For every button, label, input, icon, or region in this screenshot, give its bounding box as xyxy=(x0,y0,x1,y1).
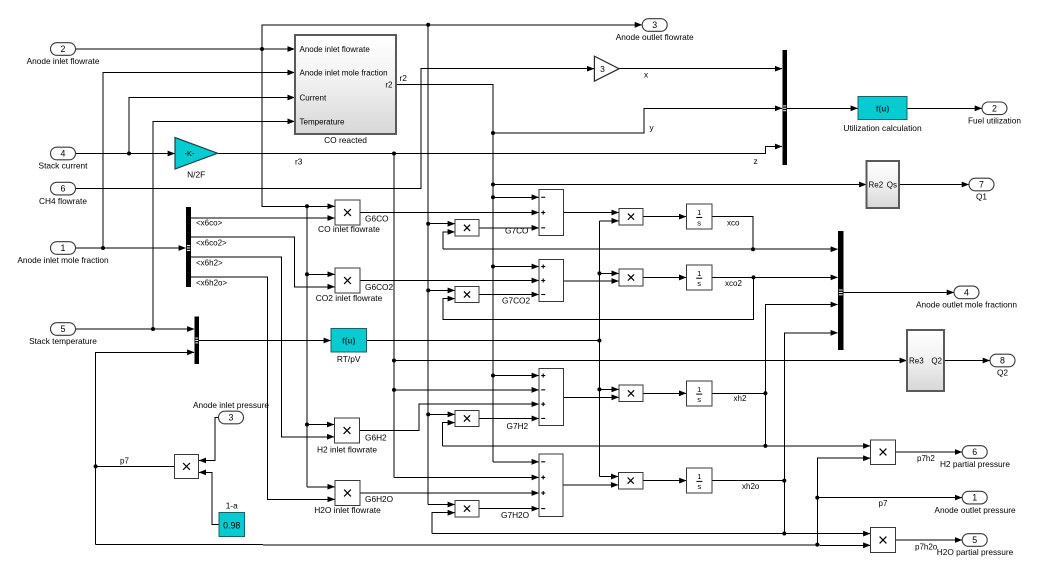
sum CO2 (+,+,-) xyxy=(539,260,564,302)
wire: r2 branch to Re2 Qs xyxy=(493,184,866,186)
svg-text:G6H2O: G6H2O xyxy=(365,494,394,504)
wire: G7CO multiply out to CO sum in3 xyxy=(479,227,539,229)
svg-text:p7h2o: p7h2o xyxy=(915,543,938,552)
wire: H2 sum out to product in2 xyxy=(564,396,619,398)
svg-text:8: 8 xyxy=(1000,356,1005,366)
wire: xh2o feedback left to G7H2O in2 xyxy=(432,513,455,534)
svg-text:Q2: Q2 xyxy=(997,368,1008,378)
svg-text:H2 inlet flowrate: H2 inlet flowrate xyxy=(317,445,377,455)
svg-text:6: 6 xyxy=(61,184,66,194)
svg-text:s: s xyxy=(698,482,702,491)
block f(u) RT/pV xyxy=(331,329,367,353)
output port 1 Anode outlet pressure xyxy=(962,491,987,504)
wire: xh2 riser up to outlet mux in3 xyxy=(765,305,837,446)
wire: xco feedback left to G7CO in2 and right to outlet mux in1 xyxy=(443,232,455,249)
wire: p7h2o multiply out to port 5 xyxy=(896,539,962,541)
svg-text:p7: p7 xyxy=(120,457,129,466)
wire: outlet flowrate chain x428 to G7 multiplies in1 xyxy=(427,25,429,505)
svg-text:5: 5 xyxy=(972,535,977,545)
svg-text:Anode inlet mole fraction: Anode inlet mole fraction xyxy=(17,255,109,265)
wire: r3 end to H2O sum in2 xyxy=(394,476,539,478)
subsystem CO reacted xyxy=(295,35,396,134)
multiply G6H2O - H2O inlet flowrate xyxy=(335,481,360,506)
block f(u) Utilization calculation xyxy=(858,97,907,120)
wire: xh2 integrator out to riser x765 xyxy=(712,392,765,394)
output port 6 H2 partial pressure xyxy=(962,446,987,459)
mux x,y,z xyxy=(782,50,787,165)
integrator 1/s xco2 xyxy=(687,265,713,290)
wire: outlet mole fraction mux out to port 4 xyxy=(844,291,954,293)
svg-text:Qs: Qs xyxy=(887,181,897,190)
wire: G6H2O to H2O sum in3 xyxy=(360,492,539,494)
wire: 0.98 constant into p7 multiply in2 (right side) xyxy=(199,472,219,524)
svg-text:Utilization calculation: Utilization calculation xyxy=(843,123,922,133)
svg-text:3: 3 xyxy=(652,20,657,30)
gain 3 xyxy=(594,56,619,81)
svg-text:1: 1 xyxy=(697,208,701,217)
wire: CO2 product to integrator xyxy=(643,276,686,278)
wire: r2 from CO reacted down distribution xyxy=(396,85,493,462)
output port 3 Anode outlet flowrate xyxy=(642,19,667,32)
svg-text:1: 1 xyxy=(972,493,977,503)
wire: Anode inlet flowrate port 2 to CO reacted in1 xyxy=(76,48,295,50)
svg-text:Temperature: Temperature xyxy=(300,117,345,126)
input port 6 CH4 flowrate xyxy=(51,182,76,195)
wire: p7 multiply output to left vertical xyxy=(96,465,175,467)
svg-text:H2 partial pressure: H2 partial pressure xyxy=(940,459,1010,469)
wire: G6H2 up and to H2 sum in3 xyxy=(360,404,539,430)
integrator 1/s xh2 xyxy=(687,381,713,406)
svg-text:CH4 flowrate: CH4 flowrate xyxy=(39,196,87,206)
wire: branch down from inlet flowrate to species inlet-flow multiplies xyxy=(262,49,335,206)
wire: temperature mux out to RT/pV f(u) xyxy=(199,340,331,342)
svg-text:xco: xco xyxy=(727,219,740,228)
multiply G7H2 xyxy=(455,410,479,426)
svg-text:4: 4 xyxy=(61,149,66,159)
svg-text:Stack temperature: Stack temperature xyxy=(29,336,97,346)
multiply G7CO xyxy=(455,220,479,236)
wire: H2 product to integrator xyxy=(643,392,686,394)
svg-text:z: z xyxy=(754,156,758,166)
svg-text:G7CO: G7CO xyxy=(505,226,529,236)
wire: branch up from stack temperature to CO reacted in4 xyxy=(153,121,295,329)
input port 3 Anode inlet pressure xyxy=(219,411,244,424)
svg-text:Q1: Q1 xyxy=(976,192,987,202)
wire: G6CO2 to CO2 sum in2 xyxy=(360,280,539,282)
output port 5 H2O partial pressure xyxy=(962,534,987,547)
svg-text:xh2: xh2 xyxy=(734,394,747,403)
wire: bus selector out3 <x6h2> to H2 inlet multiply in2 xyxy=(191,257,334,437)
wire: branch up from stack current to CO reacted in3 xyxy=(129,98,295,154)
svg-text:2: 2 xyxy=(61,44,66,54)
multiply G7CO2 xyxy=(455,286,479,302)
wire: gain 3 output x to xyz mux in1 xyxy=(619,68,782,70)
wire: r2 branch to CO sum in1 xyxy=(493,196,539,198)
multiply G6CO2 - CO2 inlet flowrate xyxy=(335,268,360,293)
svg-text:H2O partial pressure: H2O partial pressure xyxy=(937,547,1014,557)
svg-text:s: s xyxy=(697,218,701,227)
svg-text:p7: p7 xyxy=(879,499,888,508)
svg-text:Re2: Re2 xyxy=(869,181,884,190)
output port 8 Q2 xyxy=(990,354,1015,367)
input port 4 Stack current xyxy=(51,147,76,160)
svg-text:6: 6 xyxy=(972,447,977,457)
svg-text:H2O inlet flowrate: H2O inlet flowrate xyxy=(314,505,381,515)
wire: RT/pV f(u) output to distribution vertical xyxy=(367,340,600,342)
wire: G7H2 multiply out to H2 sum in4 xyxy=(479,417,539,419)
wire: r2 branch to CO2 sum in1 xyxy=(493,266,539,268)
svg-text:r2: r2 xyxy=(400,73,408,83)
svg-text:s: s xyxy=(697,279,701,288)
wire: Utilization calculation out to Fuel utilization port 2 xyxy=(907,107,982,109)
wire: G6CO to CO sum in2 xyxy=(360,212,539,214)
svg-text:3: 3 xyxy=(229,413,234,423)
sum CO (-,+,-) xyxy=(539,190,564,236)
constant 0.98 (1-a) xyxy=(219,513,245,537)
product H2O rate xyxy=(619,472,644,489)
wire: Stack current port 4 to N/2F gain xyxy=(76,153,175,155)
svg-text:Anode inlet flowrate: Anode inlet flowrate xyxy=(27,56,100,66)
integrator 1/s xco xyxy=(687,204,713,229)
svg-text:CO2 inlet flowrate: CO2 inlet flowrate xyxy=(316,293,383,303)
svg-text:Anode inlet mole fraction: Anode inlet mole fraction xyxy=(300,69,388,78)
svg-text:G6H2: G6H2 xyxy=(365,433,387,443)
svg-text:Anode outlet flowrate: Anode outlet flowrate xyxy=(616,32,694,42)
wire: p7h2 multiply out to port 6 xyxy=(896,451,962,453)
wire: r3 from N/2F gain, z to xyz mux in3 xyxy=(218,147,782,154)
svg-text:1: 1 xyxy=(61,243,66,253)
svg-text:s: s xyxy=(697,395,701,404)
wire: p7 branch to Anode outlet pressure port 1 xyxy=(817,497,962,499)
svg-text:r3: r3 xyxy=(295,157,303,167)
multiply p7 (mirrored) xyxy=(175,455,199,479)
svg-text:1: 1 xyxy=(697,472,701,481)
wire: Stack temperature port 5 to temperature mux in1 xyxy=(76,328,195,330)
svg-text:Q2: Q2 xyxy=(931,357,942,366)
wire: p7 vertical x95 up to temperature mux in2 xyxy=(96,352,195,544)
svg-text:f(u): f(u) xyxy=(876,103,890,113)
svg-text:<x6h2>: <x6h2> xyxy=(196,258,223,267)
output port 2 Fuel utilization xyxy=(982,102,1007,115)
multiply p7h2o xyxy=(871,528,896,553)
wire: p7 riser x817 up to p7h2 multiply in2 xyxy=(817,458,870,544)
mux outlet mole fractions xyxy=(838,231,844,350)
wire: xh2 feedback right to p7h2 multiply in1 xyxy=(443,445,870,447)
bus selector for anode inlet mole fraction xyxy=(186,207,191,287)
output port 7 Q1 xyxy=(969,178,994,191)
wire: G7H2O multiply out to H2O sum in4 xyxy=(479,508,539,510)
sum H2O (-,+,+,-) xyxy=(539,454,563,516)
multiply G7H2O xyxy=(455,500,479,516)
wire: Anode inlet pressure port 3 down into p7 multiply in1 (right side) xyxy=(199,418,218,461)
svg-text:5: 5 xyxy=(61,324,66,334)
wire: H2O sum out to product in2 xyxy=(563,484,618,486)
svg-text:xh2o: xh2o xyxy=(742,482,760,491)
wire: r3 branch to H2 sum in2 xyxy=(394,389,539,391)
svg-text:2: 2 xyxy=(992,103,997,113)
wire: RT/pV distribution vertical x599 to products xyxy=(598,221,600,477)
svg-text:xco2: xco2 xyxy=(725,279,742,288)
product CO rate xyxy=(619,208,643,225)
svg-text:G7CO2: G7CO2 xyxy=(502,296,531,306)
svg-text:p7h2: p7h2 xyxy=(917,454,935,463)
multiply G6H2 - H2 inlet flowrate xyxy=(335,418,360,443)
wire: r2 end to H2O sum in1 xyxy=(493,461,539,463)
wire: xco integrator out, down and feedback/mux xyxy=(712,217,753,250)
wire: xco2 integrator out to outlet mux in2 xyxy=(712,276,838,278)
svg-text:G7H2O: G7H2O xyxy=(501,510,530,520)
svg-text:4: 4 xyxy=(964,288,969,298)
wire: bus selector out2 <x6co2> to CO2 inlet multiply in2 xyxy=(191,237,335,287)
wire: r2 branch to H2 sum in1 xyxy=(493,375,539,377)
svg-text:G6CO: G6CO xyxy=(365,214,389,224)
input port 1 Anode inlet mole fraction xyxy=(51,242,76,255)
svg-text:Anode inlet flowrate: Anode inlet flowrate xyxy=(300,45,371,54)
svg-text:0.98: 0.98 xyxy=(223,521,240,531)
wire: xyz mux out to Utilization calculation xyxy=(787,107,858,109)
wire: G7CO2 multiply out to CO2 sum in3 xyxy=(479,294,539,296)
sum H2 (+,-,+,-) xyxy=(539,368,564,425)
mux temperature+pressure for RT/pV xyxy=(195,317,200,365)
block Re3 Q2 xyxy=(907,330,944,391)
svg-text:<x6h2o>: <x6h2o> xyxy=(196,279,227,288)
wire: xh2o riser up to outlet mux in4 xyxy=(784,333,837,534)
svg-text:Current: Current xyxy=(300,93,327,102)
junction dots xyxy=(260,47,264,51)
wire: Re3 Q2 out to Q2 port 8 xyxy=(944,360,990,362)
wire: flowrate vertical chain x307 to CO2/H2/H2O inlet multiplies xyxy=(306,206,308,487)
svg-text:r2: r2 xyxy=(385,80,393,89)
wire: Anode inlet mole fraction port 1 to bus selector xyxy=(76,247,186,249)
wire: H2O product to integrator xyxy=(643,480,686,482)
svg-text:<x6co>: <x6co> xyxy=(196,219,223,228)
wire: p7 bottom run to p7h2o multiply in2 xyxy=(96,544,871,547)
svg-text:N/2F: N/2F xyxy=(187,170,205,180)
svg-text:1: 1 xyxy=(697,385,701,394)
gain N/2F xyxy=(175,138,218,170)
svg-text:1-a: 1-a xyxy=(226,501,238,511)
wire: xh2o feedback right to p7h2o multiply in1 xyxy=(432,533,870,535)
wire: xco2 feedback down-left to G7CO2 in2 xyxy=(443,277,754,319)
wire: bus selector out1 <x6co> to CO inlet multiply in2 xyxy=(191,217,335,219)
svg-text:Anode outlet pressure: Anode outlet pressure xyxy=(934,505,1016,515)
svg-text:3: 3 xyxy=(600,64,605,74)
svg-text:G6CO2: G6CO2 xyxy=(365,282,394,292)
svg-text:Anode outlet mole fractionn: Anode outlet mole fractionn xyxy=(916,300,1017,310)
svg-text:CO inlet flowrate: CO inlet flowrate xyxy=(318,224,380,234)
wire: r3 vertical distribution x394 xyxy=(393,154,395,478)
block Re2 Qs xyxy=(867,161,900,208)
svg-text:Re3: Re3 xyxy=(909,357,924,366)
wire: CO sum out to product in1 xyxy=(564,212,619,214)
multiply G6CO - CO inlet flowrate xyxy=(335,200,360,225)
svg-text:f(u): f(u) xyxy=(342,336,356,346)
svg-text:-K-: -K- xyxy=(185,149,195,158)
multiply p7h2 xyxy=(871,440,896,465)
wire: branch up from mole fraction to CO reacted in2 xyxy=(103,73,295,249)
wire: branch up from inlet flowrate to Anode outlet flowrate port 3 xyxy=(262,25,642,49)
wire: bus selector out4 <x6h2o> to H2O inlet multiply in2 xyxy=(191,277,335,499)
svg-text:1: 1 xyxy=(697,269,701,278)
svg-text:7: 7 xyxy=(979,180,984,190)
wire: Re2 Qs out to Q1 port 7 xyxy=(899,184,969,186)
wire: CH4 flowrate port 6 up to gain 3 xyxy=(76,69,594,189)
input port 5 Stack temperature xyxy=(51,323,76,336)
product CO2 rate xyxy=(619,269,643,286)
product H2 rate xyxy=(619,385,643,402)
output port 4 Anode outlet mole fractionn xyxy=(954,286,979,299)
input port 2 Anode inlet flowrate xyxy=(51,43,76,56)
svg-text:Stack current: Stack current xyxy=(39,161,89,171)
wire: xh2o integrator out to riser x784 xyxy=(712,480,784,482)
svg-text:<x6co2>: <x6co2> xyxy=(196,239,227,248)
wire: r2 branch y to xyz mux in2 xyxy=(493,108,782,133)
svg-text:Fuel utilization: Fuel utilization xyxy=(968,116,1021,126)
svg-text:CO reacted: CO reacted xyxy=(324,135,367,145)
svg-text:G7H2: G7H2 xyxy=(507,421,529,431)
svg-text:RT/pV: RT/pV xyxy=(337,354,361,364)
svg-text:Anode inlet pressure: Anode inlet pressure xyxy=(193,400,269,410)
wire: xh2 feedback left to G7H2 in2 xyxy=(443,423,455,446)
wire: CO2 sum out to product in2 xyxy=(564,280,619,282)
wire: r3 branch to Re3 Q2 xyxy=(394,360,907,362)
wire: CO product to integrator xyxy=(643,216,686,218)
integrator 1/s xh2o xyxy=(687,468,713,493)
